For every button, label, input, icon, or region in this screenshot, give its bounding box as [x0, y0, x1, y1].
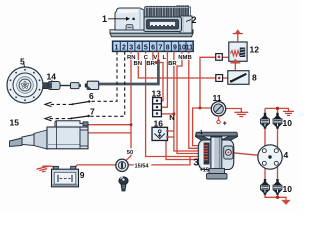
label 15/54 lock terminal: [134, 162, 152, 170]
spark plug 10 top A: [260, 113, 270, 129]
svg-text:8: 8: [166, 44, 170, 51]
svg-text:4: 4: [137, 44, 141, 51]
control unit housing box (part 1): [115, 8, 144, 30]
battery 9: [52, 166, 79, 187]
svg-text:14: 14: [47, 71, 57, 81]
wire 8 connector to box 8: [223, 77, 228, 79]
arrow left (harness continues) for line 7: [45, 116, 52, 120]
svg-text:BR: BR: [146, 61, 155, 67]
junction dot bottom plug rail: [276, 196, 279, 199]
svg-text:11: 11: [213, 93, 222, 103]
starter motor 15: [10, 121, 89, 149]
wire connector 13 bottom to node N: [162, 113, 174, 115]
svg-text:-1: -1: [198, 130, 203, 136]
switch 7 lever: [71, 115, 90, 120]
wire stub to device 16 lower: [168, 136, 174, 138]
svg-text:BN: BN: [133, 61, 142, 67]
wire cap terminal to bottom plug B: [277, 164, 279, 180]
spark plug 10 bottom A: [260, 179, 270, 195]
svg-text:NMB: NMB: [178, 55, 191, 61]
distributor cap 4: [258, 145, 282, 169]
pin numbers 1-11: [115, 44, 194, 51]
terminal wire code labels row 2: [133, 60, 177, 67]
wire battery minus to ground: [43, 166, 55, 168]
ignition coil 3 assembly: [196, 132, 238, 179]
svg-text:3: 3: [193, 157, 199, 168]
wire device 16 to ignition coil pin: [166, 141, 205, 160]
wire pin5 C to ignition coil pin: [146, 51, 205, 156]
junction dot tach/12 branch: [199, 107, 202, 110]
svg-text:50: 50: [127, 150, 133, 156]
svg-text:11: 11: [186, 44, 194, 51]
svg-text:9: 9: [173, 44, 177, 51]
svg-text:7: 7: [90, 107, 95, 117]
wire battery plus to ignition lock 30: [75, 165, 116, 168]
svg-text:9: 9: [80, 170, 85, 180]
wire branch to resistor unit 12 connector: [200, 57, 216, 108]
svg-text:N: N: [169, 113, 174, 122]
impulse sender 5 (flywheel sensor): [7, 64, 43, 104]
wire ignition coil to distributor cap 4: [232, 153, 258, 156]
wire starter lead lower: [89, 132, 132, 134]
heat sink fins of control unit (part 2): [145, 6, 191, 18]
wire pin10 N to ignition coil pin: [177, 51, 205, 153]
plus supply arrow above 8: [234, 63, 236, 71]
wire pin4 BN to connector of switch unit 8: [138, 51, 216, 78]
label 1 with leader: [102, 14, 135, 24]
svg-text:+: +: [223, 121, 227, 128]
terminal strip pins 1-11: [113, 41, 194, 51]
svg-text:8: 8: [252, 72, 257, 82]
svg-text:BR: BR: [168, 61, 177, 67]
svg-text:5: 5: [144, 44, 148, 51]
svg-text:7: 7: [158, 44, 162, 51]
svg-text:1: 1: [102, 14, 107, 24]
svg-text:15: 15: [10, 118, 20, 128]
wire tachometer to ground: [226, 109, 242, 113]
wire cap terminal to bottom plug A: [264, 164, 266, 180]
wire pin6 BR to connector 13 top: [153, 51, 163, 100]
dashed wire switch 6 to arrow: [48, 103, 72, 105]
spark plug 10 bottom B: [273, 179, 283, 195]
connector 14 pair and sensor plug: [43, 80, 99, 90]
terminal wire code labels row 1: [126, 54, 193, 62]
svg-text:10: 10: [283, 184, 293, 194]
svg-text:6: 6: [89, 91, 94, 101]
connector square of unit 12: [216, 54, 223, 61]
svg-text:12: 12: [250, 44, 260, 54]
junction dot top plug rail: [276, 107, 279, 110]
connector square of unit 8: [216, 75, 223, 82]
tachometer 11: [211, 102, 225, 124]
wire top plug A drop: [264, 108, 266, 113]
control unit connector socket (part 2): [144, 17, 182, 32]
svg-text:15/54: 15/54: [135, 163, 150, 169]
device 16 (TDC sensor box): [152, 127, 168, 140]
switch 6 lever: [72, 100, 91, 105]
control unit right end housing: [180, 16, 192, 33]
svg-text:5: 5: [20, 57, 25, 67]
wire pin11 M to ignition coil pin: [189, 51, 205, 148]
wire pin9 BR to ignition coil pin (node N): [174, 51, 205, 151]
control unit U1 base plate: [110, 30, 193, 37]
svg-text:L: L: [162, 55, 166, 61]
wire top plug B drop: [277, 108, 279, 113]
svg-text:13: 13: [152, 88, 162, 98]
wire stub to device 16 upper: [168, 130, 174, 132]
dashed wire switch 7 to arrow: [48, 118, 71, 120]
shielded cable pin7 V to impulse sender connector 14: [157, 51, 159, 60]
impact switch unit 8: [228, 59, 249, 85]
junction dot starter/lock wire: [130, 123, 133, 126]
label 50 lock terminal: [126, 148, 135, 156]
svg-text:10: 10: [283, 118, 293, 128]
ground symbol at battery: [37, 166, 50, 173]
wire bottom plug B stub: [277, 194, 279, 197]
svg-text:4: 4: [284, 150, 289, 160]
dashed wire pin2 to switch 7: [90, 51, 125, 116]
arrow left (harness continues) for line 6: [45, 102, 52, 106]
junction dot node N: [172, 112, 175, 115]
plus supply arrow above 12: [237, 34, 239, 42]
label 2 with leader: [186, 15, 197, 25]
svg-text:6: 6: [151, 44, 155, 51]
ignition lock (terminals 50, 15/54): [116, 159, 128, 171]
svg-text:3: 3: [129, 44, 133, 51]
wire 12 connector to box 12: [222, 56, 229, 58]
ignition key below lock: [119, 177, 128, 191]
ground symbol at tachometer: [234, 112, 248, 116]
ground symbol at top spark plugs: [283, 111, 294, 115]
svg-text:16: 16: [154, 118, 164, 128]
spark plug 10 top B: [273, 113, 283, 129]
wire top spark plug rail to ground: [265, 108, 289, 111]
wire pin3 RN to ignition lock terminal 50: [126, 51, 131, 160]
wire ignition lock 15/54 to coil +15: [128, 157, 190, 165]
svg-text:1: 1: [115, 44, 119, 51]
connector 13 (three terminals): [153, 98, 162, 117]
wire coil terminal 1 to tachometer 11: [193, 108, 212, 146]
junction dot BR: [154, 61, 157, 64]
svg-text:2: 2: [122, 44, 126, 51]
wire starter 50 lead upper: [86, 124, 131, 126]
svg-text:2: 2: [192, 15, 197, 25]
wire top plug B to cap terminal: [277, 128, 279, 150]
wire bottom plug rail to ground arrow: [265, 194, 286, 200]
dashed wire pin1 to switch 6: [91, 51, 118, 101]
ground arrow at bottom spark plugs: [281, 200, 290, 205]
series resistor unit 12: [229, 29, 247, 61]
wire top plug A to cap terminal: [264, 128, 266, 150]
wire pin8 L to connector 13 middle: [162, 51, 168, 107]
svg-text:+15: +15: [200, 168, 209, 174]
